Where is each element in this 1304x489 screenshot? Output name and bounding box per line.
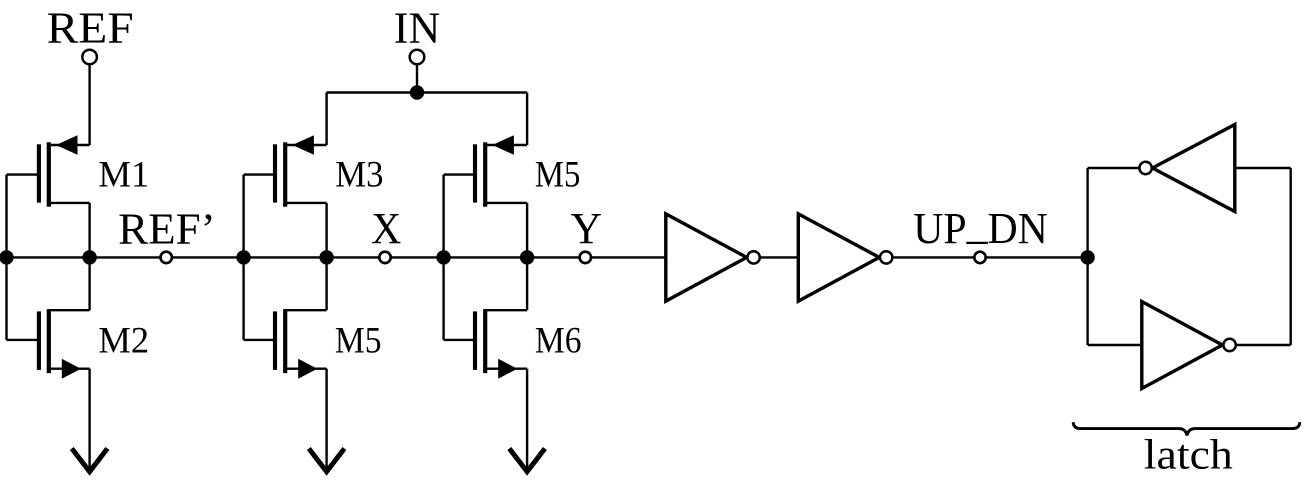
wire IN terminal to IN bus — [416, 57, 418, 93]
label X — [371, 203, 401, 253]
svg-text:REF: REF — [47, 3, 134, 53]
transistor M5 — [444, 135, 527, 207]
wire latch top — [1088, 167, 1291, 169]
wire IN bus to M5 source — [526, 93, 528, 146]
ground column 1 — [72, 369, 108, 472]
label M1 — [98, 154, 149, 195]
svg-text:M2: M2 — [98, 320, 149, 361]
inverter U2 — [798, 214, 892, 301]
svg-text:Y: Y — [571, 203, 603, 253]
label M5 — [535, 154, 581, 195]
svg-text:latch: latch — [1144, 431, 1233, 478]
wire latch bottom — [1088, 344, 1291, 346]
label latch — [1144, 431, 1233, 478]
label REF — [47, 3, 134, 53]
wire latch left vertical — [1086, 168, 1088, 345]
terminal IN — [410, 50, 425, 65]
transistor M1 — [7, 135, 90, 207]
label M2 — [98, 320, 149, 361]
wire inverter1 to inverter2 — [747, 256, 799, 258]
inverter U1 — [666, 214, 760, 301]
label REF' — [118, 203, 215, 253]
svg-text:X: X — [371, 203, 401, 253]
node X — [379, 252, 390, 263]
transistor M3 — [244, 135, 327, 207]
junction latch input — [1080, 250, 1094, 264]
label M6 — [535, 320, 582, 361]
junction M5-M6 rail — [520, 250, 534, 264]
svg-text:UP_DN: UP_DN — [913, 199, 1048, 253]
wire IN bus to M3 source — [325, 93, 327, 146]
node UP_DN — [974, 252, 985, 263]
latch inverter U3 (top, pointing left) — [1139, 125, 1234, 212]
svg-text:IN: IN — [394, 2, 440, 52]
wire M1 drain to M2 drain — [88, 203, 90, 310]
junction M3-M4 rail — [319, 250, 333, 264]
label Y — [571, 203, 603, 253]
wire gate feedback column 2 — [242, 175, 244, 340]
wire M5 drain to M6 drain — [526, 203, 528, 310]
svg-text:M1: M1 — [98, 154, 149, 195]
transistor M2 — [7, 309, 90, 379]
transistor M6 — [444, 309, 527, 379]
wire gate feedback column 1 — [5, 175, 7, 340]
label M4 (shown M5) — [335, 320, 382, 361]
junction gate column 2 — [236, 250, 250, 264]
node REF' — [161, 252, 172, 263]
node Y — [580, 252, 591, 263]
wire M3 drain to M4 drain — [325, 203, 327, 310]
latch brace — [1073, 422, 1300, 435]
junction gate column 3 — [436, 250, 450, 264]
ground column 2 — [309, 369, 345, 472]
latch inverter U4 (bottom, pointing right) — [1142, 302, 1236, 389]
svg-text:REF’: REF’ — [118, 203, 215, 253]
wire output rail REF' to inverter — [7, 256, 666, 258]
junction left rail — [0, 250, 14, 264]
junction IN bus — [410, 85, 424, 99]
wire IN bus — [327, 91, 527, 93]
label IN — [394, 2, 440, 52]
transistor M4 (labelled M5) — [244, 309, 327, 379]
wire gate feedback column 3 — [442, 175, 444, 340]
junction M1-M2 rail — [82, 250, 96, 264]
wire REF terminal to M1 source — [88, 57, 90, 145]
label UP_DN — [913, 199, 1048, 253]
svg-text:M5: M5 — [335, 320, 382, 361]
svg-text:M5: M5 — [535, 154, 581, 195]
wire latch right vertical — [1289, 168, 1291, 345]
label M3 — [335, 154, 383, 195]
wire inverter2 to latch — [879, 256, 1087, 258]
svg-text:M3: M3 — [335, 154, 383, 195]
svg-text:M6: M6 — [535, 320, 582, 361]
terminal REF — [82, 50, 97, 65]
ground column 3 — [509, 369, 545, 472]
